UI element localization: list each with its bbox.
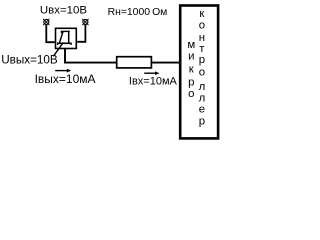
svg-text:о: о (199, 20, 205, 32)
microcontroller box (180, 6, 218, 139)
svg-text:Iвх=10мА: Iвх=10мА (129, 75, 178, 87)
microcontroller text column контроллер (199, 8, 206, 127)
svg-text:р: р (199, 115, 205, 127)
svg-text:м: м (187, 39, 195, 51)
svg-text:р: р (199, 54, 205, 66)
sensor diagonal stroke (53, 43, 63, 57)
svg-text:Uвх=10В: Uвх=10В (40, 5, 87, 17)
svg-text:л: л (199, 92, 206, 104)
svg-text:и: и (188, 50, 194, 62)
svg-text:о: о (188, 88, 194, 100)
svg-text:Uвых=10В: Uвых=10В (1, 53, 58, 66)
svg-text:Rн=1000 Ом: Rн=1000 Ом (108, 7, 168, 18)
wire sensor output to microcontroller (65, 49, 180, 63)
terminal X2 (82, 19, 88, 25)
svg-text:р: р (188, 76, 194, 88)
svg-text:л: л (199, 81, 206, 93)
resistor Rн (117, 57, 152, 68)
arrow Iвых (55, 69, 71, 73)
svg-text:е: е (199, 104, 205, 116)
wire right terminal lead (77, 24, 85, 42)
wire left terminal lead (46, 24, 54, 42)
sensor letter Д (57, 31, 72, 45)
terminal X1 (43, 19, 49, 25)
sensor box U1 (56, 28, 77, 48)
svg-text:Iвых=10мА: Iвых=10мА (35, 72, 96, 86)
svg-text:т: т (199, 43, 205, 55)
svg-text:о: о (199, 66, 205, 78)
microcontroller text column Микро (187, 39, 195, 100)
arrow Iвх (144, 71, 159, 75)
